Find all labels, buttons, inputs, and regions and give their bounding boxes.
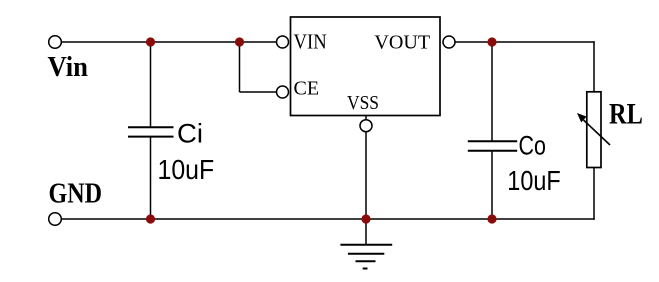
- terminal GND: [49, 213, 62, 226]
- svg-text:GND: GND: [49, 179, 103, 210]
- wire Co bottom: [491, 152, 493, 220]
- pin VOUT circle: [443, 36, 455, 48]
- junction dot VOUT rail at Co: [487, 37, 496, 46]
- svg-text:VIN: VIN: [294, 29, 327, 53]
- svg-text:VSS: VSS: [347, 92, 379, 114]
- svg-text:Co: Co: [519, 130, 546, 160]
- wire VSS stub: [365, 116, 367, 121]
- capacitor C1 Ci plates: [128, 126, 174, 128]
- resistor RL body: [587, 92, 601, 168]
- junction dot top rail at Ci: [146, 37, 155, 46]
- wire GND rail: [62, 218, 595, 220]
- pin VSS circle: [360, 120, 372, 132]
- junction dot GND rail at VSS: [361, 214, 370, 223]
- pin VIN circle: [277, 36, 289, 48]
- wire CE branch vertical: [239, 42, 241, 92]
- svg-text:CE: CE: [294, 78, 320, 99]
- op-amp U1 IC box: [291, 17, 441, 116]
- svg-text:Ci: Ci: [177, 118, 203, 148]
- wire VSS to ground: [365, 132, 367, 245]
- wire Ci top: [150, 42, 152, 127]
- terminal Vin: [49, 36, 62, 49]
- svg-text:RL: RL: [609, 98, 643, 131]
- wire top rail Vin to VIN pin: [62, 41, 277, 43]
- svg-text:Vin: Vin: [48, 52, 89, 83]
- junction dot top rail at CE branch: [235, 37, 244, 46]
- ground symbol: [340, 244, 392, 246]
- pin CE circle: [277, 86, 289, 98]
- svg-text:10uF: 10uF: [158, 154, 215, 185]
- wire CE branch horizontal: [240, 91, 277, 93]
- capacitor C2 Co plates: [468, 140, 517, 142]
- junction dot GND rail at Co: [487, 214, 496, 223]
- junction dot GND rail at Ci: [146, 214, 155, 223]
- resistor RL arrow: [584, 120, 611, 145]
- svg-text:10uF: 10uF: [507, 165, 560, 196]
- svg-text:VOUT: VOUT: [374, 32, 430, 54]
- wire Co top: [491, 42, 493, 141]
- wire RL bottom: [593, 168, 595, 220]
- wire right vertical to RL: [593, 41, 595, 92]
- wire VOUT rail: [455, 41, 595, 43]
- wire Ci bottom: [150, 138, 152, 220]
